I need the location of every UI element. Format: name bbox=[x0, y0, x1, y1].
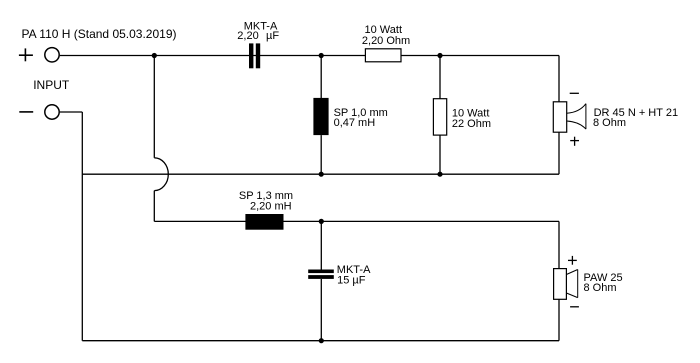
svg-text:10 Watt: 10 Watt bbox=[365, 24, 403, 36]
svg-text:2,20: 2,20 bbox=[237, 30, 258, 42]
svg-text:2,20 Ohm: 2,20 Ohm bbox=[362, 35, 410, 47]
svg-text:µF: µF bbox=[266, 30, 279, 42]
svg-text:15 µF: 15 µF bbox=[337, 275, 366, 287]
svg-text:INPUT: INPUT bbox=[33, 78, 70, 92]
svg-text:8 Ohm: 8 Ohm bbox=[593, 117, 626, 129]
svg-text:0,47 mH: 0,47 mH bbox=[334, 117, 376, 129]
svg-text:PA 110 H (Stand 05.03.2019): PA 110 H (Stand 05.03.2019) bbox=[22, 27, 177, 41]
svg-text:8 Ohm: 8 Ohm bbox=[584, 282, 617, 294]
svg-text:22 Ohm: 22 Ohm bbox=[452, 118, 491, 130]
svg-text:2,20 mH: 2,20 mH bbox=[250, 201, 292, 213]
